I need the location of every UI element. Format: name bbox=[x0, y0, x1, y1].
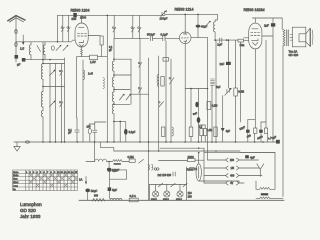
coil tuner column bbox=[41, 42, 43, 142]
svg-text:GD 320: GD 320 bbox=[289, 53, 299, 57]
wire to rect bbox=[195, 159, 204, 161]
wire x166 bbox=[165, 41, 167, 142]
node rail y40.1 bbox=[215, 39, 238, 41]
resistor box a bbox=[254, 128, 257, 133]
fuse box bbox=[129, 198, 138, 202]
wire x120.2 bbox=[119, 121, 121, 142]
wire x114 down to IF bbox=[113, 38, 115, 59]
rectifier area wires bbox=[160, 147, 204, 149]
wire vertical x139.4 bbox=[138, 15, 140, 38]
capacitor C5 bbox=[150, 36, 154, 40]
node link y59.2 bbox=[114, 58, 131, 60]
transformer output primary bbox=[283, 30, 285, 47]
AF line y161.5 bbox=[86, 161, 95, 163]
switch contact b bbox=[67, 27, 70, 32]
lamp 2 bbox=[164, 191, 170, 197]
resistor zigzag mid bbox=[113, 160, 123, 162]
svg-text:Welle: Welle bbox=[13, 175, 19, 177]
chevron rows bbox=[226, 158, 240, 185]
arrow coupling bbox=[22, 35, 24, 45]
trimmer tuner b bbox=[50, 101, 56, 107]
capacitor C6 bbox=[163, 36, 165, 40]
wire x255.3 long bbox=[254, 49, 256, 128]
switch table bbox=[13, 170, 78, 191]
cap blob b bbox=[259, 130, 263, 133]
wire x191 bbox=[190, 89, 192, 128]
wire to U3 bbox=[244, 38, 249, 41]
svg-text:GD 320: GD 320 bbox=[20, 208, 36, 213]
mains line y200.3 bbox=[79, 199, 187, 201]
svg-text:0,1µF: 0,1µF bbox=[161, 32, 168, 36]
capacitor 1uF bbox=[220, 38, 222, 42]
wire x207.5 bbox=[207, 38, 209, 160]
svg-text:RENS 1823d: RENS 1823d bbox=[244, 8, 265, 12]
tube U3 internals bbox=[251, 29, 260, 46]
trimmer IF a bbox=[120, 94, 125, 100]
lamp line bbox=[150, 184, 187, 186]
transformer core bar bbox=[261, 193, 268, 195]
wire U2 top bbox=[184, 14, 186, 34]
speaker cone bbox=[306, 28, 313, 46]
coil L2 bbox=[43, 42, 45, 60]
svg-text:4µF: 4µF bbox=[250, 155, 255, 159]
resistor box x162 mid bbox=[161, 77, 164, 87]
wire U3 anode right bbox=[262, 35, 273, 37]
svg-text:1µF: 1µF bbox=[217, 43, 222, 47]
wire R1 down bbox=[101, 45, 103, 57]
tube U3 RENS1823d bbox=[249, 23, 262, 49]
wire cap stub bbox=[108, 162, 110, 168]
svg-text:6V0,5: 6V0,5 bbox=[176, 199, 182, 201]
rectifier inner bbox=[198, 167, 200, 179]
wire cap branch down bbox=[272, 27, 274, 142]
wire x77 lower bbox=[76, 132, 78, 142]
trimmer IF b bbox=[126, 94, 131, 100]
trimmer C tuning top bbox=[161, 11, 167, 17]
capacitor blob x89 bbox=[88, 124, 91, 142]
speaker frame bbox=[292, 27, 306, 47]
wires cluster bbox=[248, 120, 268, 142]
pot wave low bbox=[172, 127, 174, 136]
wire U3 top bbox=[252, 18, 282, 30]
svg-text:µF: µF bbox=[17, 63, 21, 67]
wire x266 top bbox=[265, 40, 267, 128]
chevron labels bbox=[230, 159, 235, 185]
svg-text:100: 100 bbox=[87, 126, 92, 129]
switch contact a bbox=[61, 27, 64, 32]
resistor R1 anode bbox=[100, 36, 103, 45]
trimmer 5nF bbox=[225, 88, 232, 95]
wire rect tube bottom bbox=[199, 180, 239, 182]
main bus ground y142 bbox=[14, 141, 276, 143]
svg-text:5µF: 5µF bbox=[112, 188, 117, 192]
choke bumps bbox=[95, 159, 107, 161]
wire battery right bbox=[98, 56, 108, 58]
svg-text:0,4M: 0,4M bbox=[207, 128, 213, 132]
coil x158.7 bbox=[157, 75, 159, 87]
resistor 0,5M bbox=[129, 159, 135, 162]
rectifier tube bbox=[196, 164, 201, 181]
svg-text:500: 500 bbox=[72, 17, 77, 21]
tube U1 internals bbox=[78, 28, 87, 47]
capacitor 0,5uF bbox=[107, 168, 111, 171]
switch wave a bbox=[59, 70, 63, 75]
wire x186.5 bbox=[186, 167, 188, 200]
node stub y122 b bbox=[261, 121, 266, 123]
ground bbox=[14, 142, 20, 151]
svg-text:500pF: 500pF bbox=[147, 32, 155, 36]
svg-text:5nF: 5nF bbox=[216, 85, 221, 89]
svg-text:1,5V: 1,5V bbox=[90, 60, 96, 64]
node top rail A bbox=[58, 14, 166, 16]
chevron stubs left bbox=[204, 160, 226, 183]
resistor box b bbox=[264, 128, 267, 133]
wire x198 bbox=[198, 89, 200, 143]
wire vertical x114 bbox=[113, 15, 115, 38]
svg-text:1,5: 1,5 bbox=[20, 47, 25, 51]
wire chevron col right bbox=[238, 181, 240, 183]
tube U2 RENS1214 bbox=[179, 32, 191, 44]
node link y104.3 bbox=[114, 103, 130, 105]
wire vertical x132.8 bbox=[132, 15, 134, 38]
svg-text:400: 400 bbox=[230, 175, 235, 178]
node rail C y14.4 bbox=[165, 13, 217, 15]
switch volume bbox=[139, 159, 144, 163]
wire x83 bbox=[82, 60, 84, 142]
svg-text:1/5: 1/5 bbox=[231, 167, 235, 170]
svg-text:2x2 110 220: 2x2 110 220 bbox=[158, 174, 172, 177]
core bar bbox=[114, 163, 121, 165]
capacitor blob rail bbox=[22, 58, 26, 62]
svg-text:1A: 1A bbox=[79, 178, 83, 182]
wire rect tube top bbox=[198, 153, 200, 164]
H2 left corner bbox=[100, 142, 102, 148]
capacitor blob x198 bbox=[197, 117, 201, 123]
svg-text:4V: 4V bbox=[230, 182, 233, 185]
wire primary bottom bbox=[282, 46, 284, 197]
wire x158.7 bbox=[158, 56, 160, 151]
node link y75 bbox=[114, 74, 131, 76]
svg-text:4µF: 4µF bbox=[226, 129, 231, 133]
wire top cap U1 bbox=[81, 15, 83, 23]
node link y63.5 bbox=[43, 63, 65, 65]
switch contact c bbox=[112, 27, 115, 32]
capacitor bus end bbox=[276, 140, 280, 144]
choke mains bbox=[110, 199, 122, 201]
resistor box x209 bbox=[207, 102, 211, 110]
fuse box small bbox=[190, 167, 194, 170]
capacitor 2uF out bbox=[271, 23, 275, 26]
wire x223 low bbox=[222, 96, 224, 126]
svg-text:150: 150 bbox=[230, 159, 235, 162]
tube U1 RENS1204 bbox=[75, 23, 88, 47]
capacitor 5uF a bbox=[108, 168, 112, 171]
switch wave b bbox=[59, 102, 63, 107]
speaker magnet bbox=[299, 34, 306, 42]
svg-text:Mittel: Mittel bbox=[13, 181, 19, 184]
wire U2 bottom long bbox=[184, 41, 186, 142]
coil small x83 bbox=[83, 70, 85, 80]
IF transformer column bbox=[112, 59, 114, 142]
capacitor blob x198 low bbox=[195, 102, 198, 108]
resistor bias bead bbox=[81, 50, 83, 55]
wire 50uF down bbox=[87, 192, 89, 200]
svg-text:Kurz: Kurz bbox=[13, 178, 18, 181]
lamp 3 bbox=[177, 191, 183, 197]
capacitor plates x77 bbox=[75, 130, 79, 132]
node link y94.2 bbox=[131, 93, 149, 95]
svg-text:220: 220 bbox=[188, 195, 193, 198]
wire x64.5 bbox=[64, 58, 66, 142]
wire bbox=[122, 161, 129, 163]
resistor 2000 bbox=[187, 159, 195, 162]
trimmer tuner a bbox=[50, 70, 56, 76]
capacitor blob x125.8 bbox=[124, 122, 128, 142]
svg-text:Lang: Lang bbox=[13, 185, 19, 187]
wire band switch 1 bbox=[57, 15, 59, 41]
trimmer T1 bbox=[56, 45, 61, 51]
resistor box x191 bbox=[189, 127, 193, 137]
svg-text:Skala: Skala bbox=[13, 172, 19, 174]
svg-text:6V0,5: 6V0,5 bbox=[151, 199, 157, 201]
svg-text:1500: 1500 bbox=[80, 16, 87, 20]
resistor box x215.5 low bbox=[214, 127, 217, 137]
transformer secondary bbox=[290, 35, 293, 41]
capacitor 50uF bbox=[85, 189, 90, 193]
svg-text:6V0,5: 6V0,5 bbox=[163, 199, 169, 201]
wire below cap bbox=[15, 59, 17, 62]
wire x50 bbox=[49, 64, 51, 143]
lamp switch b bbox=[171, 183, 175, 187]
svg-text:RENS 1204: RENS 1204 bbox=[71, 8, 90, 12]
mains bottom line bbox=[187, 199, 285, 201]
wire to U2 bbox=[165, 37, 179, 39]
node link y89.5 bbox=[114, 89, 130, 91]
capacitor bead upper bbox=[15, 30, 17, 34]
pickup Y bbox=[257, 164, 264, 177]
wire x148.6 bbox=[148, 58, 150, 200]
node link y88.5 bbox=[185, 88, 207, 90]
wire U1 cathode bbox=[81, 47, 83, 49]
wire x228 bbox=[227, 40, 229, 88]
svg-text:10µ: 10µ bbox=[240, 43, 245, 47]
wire x216 bbox=[215, 40, 217, 142]
switch contact e bbox=[138, 27, 141, 32]
capacitor 500 top bbox=[73, 13, 77, 18]
H2 bus y151 bbox=[101, 148, 240, 151]
wire x140 lower bbox=[139, 38, 141, 142]
svg-text:Jahr 1933: Jahr 1933 bbox=[20, 214, 41, 219]
wire x55.5 bbox=[55, 64, 57, 143]
node lower rail y38.4 bbox=[114, 37, 149, 39]
svg-text:1+5: 1+5 bbox=[88, 72, 93, 76]
IF core dashes bbox=[211, 79, 215, 85]
wire 5uF loop bbox=[109, 170, 126, 199]
switch contact f bbox=[138, 62, 141, 67]
capacitor 40pF bbox=[196, 14, 201, 37]
svg-text:0,1µF: 0,1µF bbox=[129, 130, 136, 134]
coil L1 bbox=[29, 42, 31, 60]
capacitor 4uF box bbox=[245, 155, 249, 158]
switch contact d bbox=[131, 27, 134, 32]
switch contact i bbox=[159, 101, 164, 107]
capacitor antenna series bbox=[15, 55, 19, 59]
svg-text:2µF: 2µF bbox=[264, 24, 269, 28]
node stub y119.6 a bbox=[248, 119, 256, 121]
capacitor 5uF b bbox=[108, 187, 112, 191]
svg-text:0,2M: 0,2M bbox=[212, 104, 218, 108]
node grid bus bbox=[16, 41, 72, 43]
wire x191 low bbox=[190, 137, 192, 143]
transformer primary zigzag bbox=[260, 187, 270, 189]
wire x171 bbox=[170, 59, 172, 142]
wire x61.5 bbox=[61, 64, 63, 143]
IF winding thin bbox=[103, 78, 104, 89]
capacitor plates x94.8 bbox=[93, 122, 97, 142]
node link y122 bbox=[89, 121, 126, 124]
title text bbox=[20, 202, 42, 219]
wire AF right bbox=[159, 160, 188, 162]
svg-text:100pF: 100pF bbox=[160, 17, 168, 21]
transformer secondary zigzag bbox=[260, 197, 270, 199]
jack circles bbox=[154, 168, 156, 170]
resistor mains zigzag bbox=[92, 199, 105, 202]
lamp switch a bbox=[158, 183, 162, 187]
wire x235.5 bbox=[235, 40, 237, 142]
svg-text:5µF: 5µF bbox=[112, 169, 117, 173]
svg-text:µF: µF bbox=[68, 132, 71, 135]
svg-text:0,5 A: 0,5 A bbox=[130, 194, 137, 198]
antenna bbox=[8, 16, 25, 22]
svg-text:RENS 1214: RENS 1214 bbox=[175, 8, 194, 12]
wire U1 grid left bbox=[72, 39, 75, 41]
wire x77 upper bbox=[76, 118, 78, 130]
switch S1a bbox=[37, 46, 41, 52]
table header text bbox=[13, 172, 78, 191]
lamp 1 bbox=[153, 191, 159, 197]
chevron stubs right bbox=[239, 160, 262, 183]
trimmer T2 bbox=[63, 45, 68, 51]
wire x131 bbox=[130, 59, 132, 104]
capacitor 2nF bbox=[226, 62, 231, 65]
wire U1 anode right bbox=[88, 35, 100, 37]
table x marks bbox=[29, 174, 77, 187]
svg-text:300: 300 bbox=[94, 195, 99, 198]
trimmer osc bbox=[205, 21, 211, 27]
wire band switch 3 bbox=[68, 15, 70, 41]
wire x212 bbox=[211, 86, 213, 143]
wire x240.6 bbox=[240, 42, 242, 122]
resistor twin a bbox=[199, 125, 206, 142]
node rail y59.6 bbox=[25, 59, 64, 61]
electrolytic arrow x223 bbox=[221, 125, 225, 142]
node link y86.5 bbox=[43, 86, 65, 88]
resistor cluster right: cap 10uF bbox=[246, 130, 250, 133]
capacitor mini bbox=[173, 172, 175, 176]
switch contact h bbox=[169, 77, 174, 84]
wire vertical x107 long bbox=[106, 15, 108, 142]
connector oval on bus bbox=[26, 141, 30, 143]
wire x94.6 af bbox=[94, 142, 96, 162]
battery box bbox=[90, 55, 98, 59]
resistor twin b bbox=[204, 125, 207, 142]
capacitor bead lower bbox=[15, 43, 17, 47]
tube U2 internals bbox=[181, 34, 188, 41]
lamp switch c bbox=[183, 183, 187, 187]
wire antenna lead bbox=[15, 17, 17, 56]
pot waves bbox=[148, 165, 149, 171]
power box right bbox=[274, 153, 276, 190]
wire U2 anode bbox=[191, 37, 208, 39]
resistor box x235.5 bbox=[234, 88, 238, 96]
lamp stubs bbox=[150, 185, 181, 201]
resistor box x166 top bbox=[163, 58, 169, 62]
capacitor padder bbox=[51, 46, 54, 50]
svg-text:2nF: 2nF bbox=[220, 62, 225, 66]
svg-text:0,5M: 0,5M bbox=[238, 90, 244, 94]
transformer core bbox=[286, 30, 288, 47]
wire bbox=[155, 37, 163, 39]
wire x77.5 bbox=[76, 57, 78, 118]
svg-text:Lumophon: Lumophon bbox=[20, 202, 42, 207]
transformer leads bbox=[256, 181, 260, 189]
svg-text:0,5M: 0,5M bbox=[128, 155, 135, 159]
power box top bbox=[240, 152, 275, 154]
wire band switch 2 bbox=[62, 15, 64, 41]
coil osc bbox=[214, 14, 218, 40]
svg-text:50µF: 50µF bbox=[91, 189, 98, 193]
resistor cathode U3 bbox=[238, 39, 244, 42]
wire bbox=[107, 161, 113, 163]
arrow mains bbox=[85, 177, 87, 185]
resistor box x163 low bbox=[162, 127, 165, 137]
switch contact g bbox=[138, 88, 141, 93]
